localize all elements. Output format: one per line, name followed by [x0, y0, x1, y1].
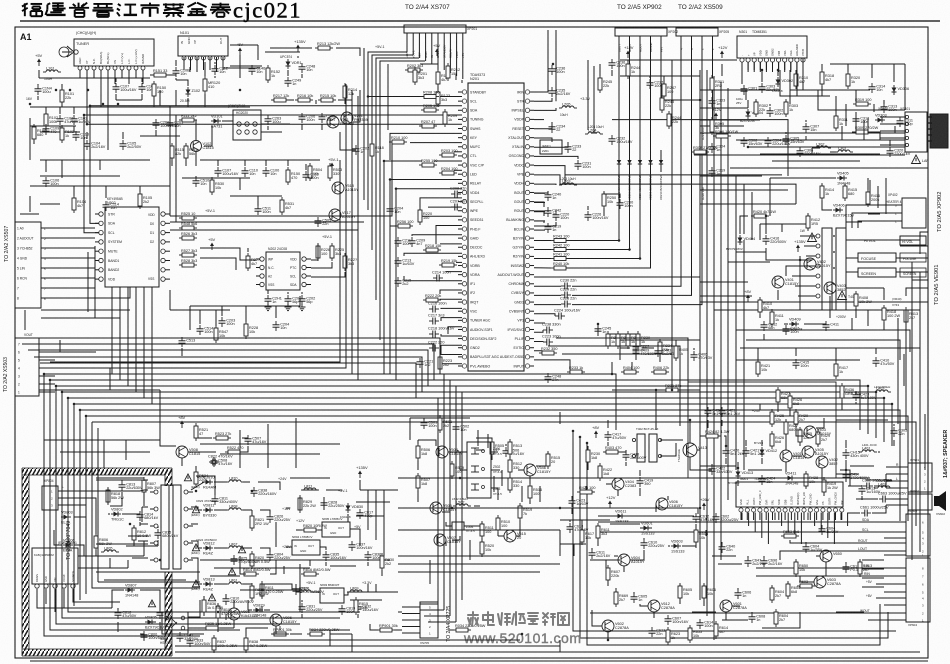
wire: [886, 498, 890, 500]
wire: [618, 450, 626, 452]
capacitor C301 100u 25V: [741, 85, 758, 95]
diode VD611 1SS133: [615, 510, 629, 524]
wire: [790, 62, 792, 70]
resistor R301 2k2: [710, 75, 724, 93]
optocoupler N802 HSB17B: [160, 612, 188, 645]
wire: [125, 440, 127, 460]
wire: [643, 550, 645, 556]
wire: [225, 614, 227, 620]
wire: [745, 90, 747, 100]
wire: [712, 36, 714, 120]
capacitor C223 100n: [542, 335, 561, 346]
wire: [876, 597, 884, 599]
wire: [214, 583, 227, 585]
wire: [204, 126, 212, 146]
capacitor C303 22u 50V: [759, 83, 781, 93]
capacitor C661 1000u 25V: [860, 506, 889, 517]
capacitor CH15 430n 400V: [843, 449, 870, 459]
wire: [631, 362, 633, 374]
wire: [534, 192, 545, 194]
wire: [423, 418, 425, 420]
wire: [140, 490, 144, 491]
wire: [694, 154, 905, 156]
wire: [534, 98, 552, 101]
wire: [440, 290, 462, 294]
capacitor C103 470u: [113, 83, 137, 93]
wire: [409, 418, 411, 440]
wire: [79, 410, 81, 600]
wire: [41, 317, 120, 319]
transistor V505 C1815Y: [430, 502, 457, 514]
wire: [597, 324, 599, 336]
wire: [802, 58, 804, 62]
wire: [736, 330, 910, 352]
wire: [897, 318, 899, 424]
resistor R528 3k3: [179, 259, 197, 267]
wire: [151, 287, 153, 404]
connector XP402 heater: [884, 193, 926, 228]
wire: [781, 513, 783, 527]
wire: [572, 36, 692, 295]
resistor R234 22k: [658, 339, 672, 357]
capacitor C303b 1n: [709, 97, 726, 107]
label +12V mid: [606, 495, 616, 508]
wire: [200, 258, 236, 270]
resistor R205 100: [421, 104, 439, 112]
wire: [700, 89, 780, 91]
wire: [816, 595, 844, 597]
resistor R436 1W: [840, 383, 860, 401]
wire: [700, 203, 796, 205]
wire: [61, 102, 63, 107]
wire: [243, 509, 252, 511]
wire: [476, 449, 484, 451]
wire: [818, 90, 905, 110]
wire: [605, 560, 607, 568]
wire: [498, 535, 504, 537]
wire: [406, 44, 408, 52]
wire: [30, 106, 250, 108]
resistor R427 68k: [776, 387, 790, 405]
power +8V label: [178, 415, 186, 428]
resistor R617 10k: [580, 527, 594, 545]
IC N502 keyboard controller box: [95, 197, 170, 287]
resistor R318 4k7: [820, 69, 834, 87]
wire: [150, 74, 154, 76]
wire: [412, 44, 414, 55]
wire: [272, 633, 288, 635]
capacitor C833 100n 54V: [187, 637, 211, 647]
wire: [108, 513, 110, 515]
wire: [780, 70, 830, 96]
wire: [590, 559, 620, 561]
capacitor C106 100n: [43, 177, 60, 187]
capacitor C507 47u 16V: [245, 435, 267, 445]
wire: [803, 70, 812, 90]
wire: [777, 404, 779, 412]
wire: [840, 470, 850, 486]
wire: [560, 184, 796, 204]
wire: [431, 44, 433, 64]
wire: [330, 565, 356, 567]
capacitor C606 1n: [735, 589, 752, 599]
wire: [663, 76, 665, 84]
wire: [547, 30, 549, 64]
wire: [204, 62, 206, 76]
wire: [265, 51, 300, 53]
resistor R507 1k8: [416, 473, 430, 491]
wire: [777, 70, 779, 76]
resistor R604b 2k7: [774, 609, 788, 627]
wire: [54, 598, 56, 612]
resistor R217 12k: [271, 94, 289, 102]
connector XP202 header: [615, 28, 678, 52]
capacitor C421b 5n1 2kV: [719, 407, 741, 417]
wire: [16, 338, 440, 374]
transistor V405 A1015Y: [802, 446, 829, 458]
wire: [181, 348, 183, 356]
wire: [659, 354, 661, 362]
resistor R242 100: [551, 243, 569, 251]
inductor L801: [226, 579, 244, 585]
wire: [679, 584, 681, 586]
wire: [816, 555, 820, 557]
wire: [747, 556, 749, 558]
capacitor C304b 1n: [709, 143, 726, 153]
capacitor C604 1u 35V: [803, 543, 823, 553]
wire: [204, 627, 206, 629]
wire: [657, 344, 659, 346]
wire: [424, 507, 430, 509]
transistor V507 C1815Y: [434, 534, 461, 546]
wire: [100, 70, 102, 107]
resistor R650 10k: [794, 559, 808, 577]
wire: [287, 292, 289, 294]
wire: [477, 430, 479, 446]
wire: [37, 96, 39, 100]
wire: [737, 588, 739, 590]
wire: [855, 402, 857, 404]
wire: [534, 222, 556, 226]
wire: [344, 592, 352, 595]
wire: [534, 211, 544, 216]
wire: [153, 83, 155, 85]
capacitor C302 100n: [767, 107, 784, 117]
capacitor C229 22n: [560, 288, 576, 299]
resistor R406 22k: [651, 366, 669, 374]
resistor R415 680: [843, 183, 857, 201]
wire: [868, 619, 884, 621]
wire: [214, 509, 227, 511]
wire: [222, 120, 233, 122]
IC N201 TDA9373 main processor box: [458, 73, 534, 371]
wire: [440, 357, 462, 364]
wire: [904, 64, 906, 110]
wire: [290, 633, 302, 635]
wire: [60, 257, 95, 259]
capacitor C305 63V: [783, 135, 805, 145]
wire: [639, 488, 641, 496]
wire: [534, 314, 555, 316]
wire: [814, 451, 816, 453]
resistor R239 1k: [636, 331, 650, 349]
wire: [845, 460, 847, 470]
resistor R513 1k8: [508, 439, 522, 457]
wire: [221, 306, 223, 316]
wire: [73, 598, 120, 602]
wire: [436, 226, 462, 245]
wire: [311, 262, 332, 268]
wire: [140, 523, 148, 525]
transistor V601 C2878A: [720, 600, 747, 612]
wire: [643, 538, 645, 540]
wire: [39, 389, 160, 391]
wire: [759, 224, 761, 240]
wire: [239, 55, 241, 68]
wire: [311, 244, 318, 260]
wire: [795, 348, 797, 356]
wire: [572, 36, 681, 286]
capacitor C422 33n 630V: [709, 465, 733, 475]
wire: [835, 348, 837, 362]
wire: [893, 424, 895, 426]
wire: [381, 570, 383, 576]
resistor R209 1k: [443, 109, 457, 127]
wire: [700, 301, 928, 303]
wire: [107, 488, 109, 504]
capacitor C611 2u2 16V: [589, 549, 611, 559]
wire: [785, 420, 787, 422]
wire: [182, 177, 250, 179]
wire: [755, 100, 757, 102]
wire: [689, 628, 691, 640]
transformer T801: [150, 474, 205, 569]
transistor V518 A1015Y: [332, 182, 359, 194]
wire: [747, 62, 749, 70]
wire: [434, 123, 462, 125]
resistor R222 20k: [423, 294, 441, 302]
wire: [560, 519, 610, 521]
connector XP601 speaker out: [886, 458, 932, 492]
wire: [456, 451, 467, 453]
resistor R429 2k7: [816, 429, 830, 447]
resistor R520 10k: [480, 539, 494, 557]
wire: [248, 600, 252, 610]
tuner U101 box: [74, 31, 154, 78]
wire: [695, 524, 697, 530]
wire: [286, 546, 292, 548]
transistor V546 C1815Y: [524, 464, 551, 476]
wire: [40, 175, 120, 177]
wire: [43, 374, 45, 430]
wire: [722, 619, 748, 621]
resistor R308 27/0.5W: [691, 146, 718, 154]
wire: [772, 575, 840, 577]
wire: [103, 440, 105, 468]
wire: [214, 481, 227, 483]
resistor R509 100: [450, 461, 464, 479]
wire: [874, 474, 886, 486]
resistor R512 330: [508, 457, 522, 475]
transistor V403 3852: [824, 282, 846, 294]
resistor R236 1k: [606, 331, 620, 349]
wire: [862, 586, 884, 588]
wire: [565, 174, 782, 176]
wire: [847, 513, 849, 527]
wire: [34, 357, 422, 392]
wire: [436, 96, 462, 98]
wire: [37, 84, 39, 85]
wire: [86, 70, 88, 84]
capacitor C420 5n1 2kV: [723, 447, 745, 457]
inductor L403 680uH: [873, 385, 891, 392]
connector XP201 header: [404, 25, 477, 58]
wire: [428, 206, 462, 208]
wire: [727, 88, 729, 500]
wire: [571, 496, 573, 498]
capacitor C237 100n: [647, 79, 664, 89]
wire: [867, 178, 869, 190]
resistor R150 470: [286, 167, 300, 185]
capacitor C417b 100n: [783, 325, 800, 335]
wire: [437, 64, 439, 70]
wire: [61, 84, 63, 90]
wire: [707, 420, 709, 428]
isolation hatch barrier around power supply primary: [22, 468, 172, 656]
wire: [340, 132, 356, 150]
capacitor C838 220u 160V: [251, 487, 278, 497]
wire: [440, 298, 462, 301]
capacitor C263 100u 16V: [167, 119, 184, 129]
resistor R202 3k3: [405, 64, 423, 72]
resistor R605 10k: [678, 583, 692, 601]
wire: [398, 477, 870, 479]
resistor R508b 10k: [694, 527, 708, 545]
resistor R244 1k: [626, 61, 640, 79]
signal label ROUT: [830, 539, 884, 543]
wire: [175, 115, 177, 222]
resistor R241 100: [551, 252, 569, 260]
capacitor C502 10n: [453, 423, 470, 433]
wire: [590, 612, 884, 614]
wire: [434, 160, 462, 162]
resistor R548 5k6: [179, 222, 197, 230]
wire: [833, 513, 835, 545]
wire: [619, 340, 621, 360]
wire: [700, 125, 744, 127]
wire: [872, 505, 886, 513]
wire: [170, 309, 230, 311]
wire: [240, 576, 300, 590]
resistor R220 100 vertical: [418, 207, 432, 225]
wire: [141, 94, 143, 100]
wire: [612, 120, 788, 176]
wire: [321, 124, 323, 130]
wire: [87, 70, 422, 124]
wire: [246, 628, 268, 636]
wire: [94, 246, 96, 318]
wire: [867, 310, 869, 326]
wire: [338, 99, 352, 101]
wire: [60, 267, 95, 269]
wire: [573, 544, 575, 556]
resistor R525 10: [179, 212, 197, 220]
wire: [175, 651, 920, 653]
wire: [143, 480, 145, 481]
wire: [301, 292, 303, 294]
wire: [114, 70, 116, 84]
capacitor C307 15n: [803, 123, 820, 133]
wire: [566, 36, 619, 241]
wire: [640, 527, 652, 529]
resistor R201 3k3: [413, 67, 427, 85]
wire: [214, 490, 216, 493]
resistor R604 2k7 6k8: [770, 585, 784, 603]
resistor R820 1R 0.5W: [250, 551, 270, 569]
wire: [774, 513, 776, 521]
wire: [394, 629, 402, 631]
wire: [404, 253, 462, 256]
wire: [417, 460, 419, 470]
wire: [611, 362, 613, 374]
resistor R603 5k6: [797, 580, 815, 588]
wire: [607, 420, 609, 428]
capacitor C248 10n: [299, 63, 316, 73]
wire: [29, 196, 31, 212]
wire: [363, 48, 365, 200]
resistor R104 4k7: [72, 195, 86, 213]
wire: [700, 175, 762, 177]
wire: [443, 44, 445, 70]
wire: [396, 189, 462, 380]
connector XS705: [402, 602, 438, 645]
wire: [204, 94, 206, 107]
wire: [261, 123, 290, 125]
wire: [700, 107, 748, 109]
resistor R510 100: [496, 515, 510, 533]
transistor V602 C2878A: [602, 620, 629, 632]
wire: [105, 186, 107, 198]
wire: [603, 208, 605, 216]
capacitor C832 140u 16V: [355, 603, 379, 613]
transistor V401 C1815Y: [772, 276, 799, 288]
wire: [587, 446, 589, 450]
capacitor C304 220u 100V: [765, 137, 792, 147]
wire: [418, 440, 436, 446]
resistor R218 15k: [423, 244, 441, 252]
signal label SDA: [836, 518, 884, 522]
resistor R836 1k 0.25W: [202, 597, 223, 615]
wire: [769, 178, 771, 216]
capacitor C209 4n7: [409, 237, 426, 247]
wire: [763, 556, 765, 558]
wire: [883, 288, 885, 300]
diode VD805 BZX79C3V1: [145, 616, 166, 630]
wire: [297, 56, 299, 58]
capacitor C810 2200 AVR60V: [208, 594, 254, 605]
resistor R111 2k2: [179, 114, 197, 122]
capacitor C605 1n: [631, 593, 648, 603]
wire: [320, 547, 326, 550]
wire: [573, 430, 896, 631]
wire: [799, 442, 801, 446]
wire: [398, 508, 698, 514]
wire: [30, 185, 170, 187]
wire: [157, 526, 159, 528]
signal label SCL: [836, 528, 884, 532]
capacitor C235 2u2 16V: [549, 87, 571, 97]
transistor V402 A1015Y: [804, 258, 831, 270]
